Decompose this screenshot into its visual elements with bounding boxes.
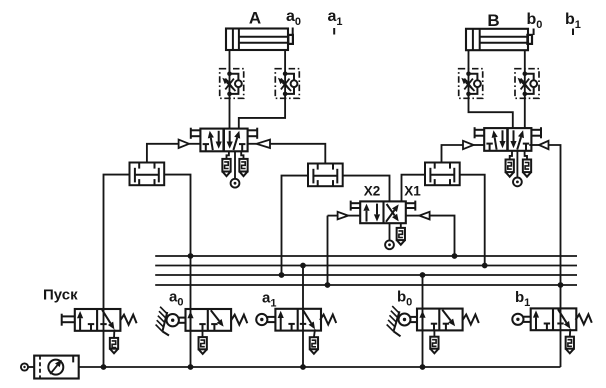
wire: shuttle V1 left input down through start valve to supply rail	[104, 175, 130, 367]
wire: valve B right pilot down to bus line 4 and b1 valve	[529, 145, 560, 367]
shuttle valve V2 (OR, valve A pilot return)	[308, 164, 343, 187]
junction: a1 valve on supply rail	[300, 364, 306, 370]
cylinder A	[226, 29, 293, 51]
3/2 start valve (push button)	[75, 309, 121, 331]
spring return of start valve	[120, 315, 136, 325]
wire: shuttle V3 output to valve B left pilot	[442, 145, 485, 163]
junction: a0 valve on supply rail	[188, 364, 194, 370]
spring return b0	[463, 315, 479, 325]
label X2	[364, 184, 381, 199]
wire: shuttle V3 right input down to bus line 2	[460, 175, 485, 266]
3/2 limit valve b1	[531, 308, 577, 330]
wire: a1 valve output up to bus line 2 and down to supply rail	[302, 266, 304, 368]
wall mark a0	[156, 307, 169, 336]
silencer under b1 valve	[566, 329, 574, 354]
label X1	[404, 184, 421, 199]
junction: start valve on supply rail	[101, 364, 107, 370]
flow control valve DR2 (A head side)	[275, 69, 299, 99]
junction: b0 valve on supply rail	[420, 364, 426, 370]
flow control valve DR1 (A rod side)	[220, 69, 244, 99]
svg-text:X1: X1	[404, 184, 421, 199]
wire: cylinder A left port down through flow control to valve A top	[229, 50, 231, 129]
svg-text:A: A	[249, 9, 261, 28]
wire: shuttle V1 output to valve A left pilot	[147, 144, 201, 163]
label b0 (limit valve)	[397, 289, 412, 309]
junction: V3 input on bus 2	[482, 263, 488, 269]
label a1 with position mark	[328, 8, 343, 35]
3/2 limit valve a0 (shown actuated)	[186, 309, 232, 331]
wire: cylinder B right port down through flow control to valve B top	[524, 50, 526, 128]
silencer under b0 valve	[430, 330, 438, 353]
wall mark b0	[387, 306, 401, 336]
shuttle valve V1 (OR, valve A pilot)	[130, 163, 165, 186]
label b1 with position mark	[565, 11, 581, 35]
5/2 directional valve P2 (cylinder B)	[475, 127, 541, 151]
pilot triangle P2 right	[539, 141, 549, 149]
silencer under a0 valve	[199, 331, 207, 354]
roller actuator a0	[167, 314, 186, 326]
wire: shuttle V3 left input to valve X1 output port	[402, 175, 426, 202]
junction: a1 line on bus 2	[300, 263, 306, 269]
wire: cylinder B left port down through flow control, bend to valve B top	[469, 50, 513, 128]
pilot triangle P1 left	[179, 140, 190, 148]
spring return a1	[320, 315, 336, 325]
wire: shuttle V2 left input down to bus line 3	[282, 176, 309, 275]
junction: V2 input on bus 3	[279, 272, 285, 278]
label a1 (limit valve)	[262, 290, 276, 310]
wire: shuttle V1 right input down through a0 valve to supply rail	[164, 175, 190, 367]
silencer under P1 left exhaust	[222, 151, 230, 176]
junction: X left pilot on bus 4	[325, 282, 331, 288]
label A	[249, 9, 261, 28]
label B	[487, 11, 499, 30]
silencer under P1 right exhaust	[239, 151, 247, 176]
pilot triangle P1 right	[256, 140, 270, 148]
pilot triangle P2 left	[463, 141, 474, 149]
junction: X right pilot on bus 1	[452, 253, 458, 259]
spring return b1	[576, 314, 592, 324]
wire: bus line 1	[155, 255, 577, 257]
silencer under a1 valve	[310, 329, 318, 354]
svg-text:X2: X2	[364, 184, 381, 199]
wire: supply rail	[79, 366, 561, 368]
wire: cylinder A right port down through flow control, bend to valve A top	[239, 50, 285, 129]
air supply source (circle with dot)	[21, 363, 34, 370]
wire: bus line 4	[155, 284, 577, 286]
wire: bus line 3	[155, 274, 577, 276]
wire: b0 valve line from bus line 3 down to supply rail	[422, 275, 424, 367]
silencer under P2 right exhaust	[523, 151, 531, 177]
spring return a0	[231, 315, 247, 325]
pressure source under X	[385, 223, 394, 249]
label Pusk (start)	[43, 287, 78, 304]
label b1 (limit valve)	[515, 289, 530, 309]
label a0 (limit valve)	[169, 289, 183, 309]
wire: valve X left pilot down to bus line 4	[328, 216, 361, 285]
junction: b0 line on bus 3	[420, 272, 426, 278]
pressure source under P1	[231, 151, 240, 187]
pilot triangle X right	[419, 212, 429, 220]
junction: a0 line on bus 1	[188, 253, 194, 259]
roller actuator a1	[256, 314, 275, 325]
conditioning unit (filter-regulator with gauge)	[34, 356, 78, 379]
3/2 limit valve b0 (shown actuated)	[417, 309, 463, 331]
flow control valve DR4 (B head side)	[515, 69, 539, 99]
roller actuator b1	[512, 314, 530, 325]
silencer under X	[397, 223, 405, 245]
pilot triangle X left	[338, 212, 349, 220]
4/2 impulse valve X (memory)	[351, 201, 416, 224]
push button actuator	[62, 314, 75, 326]
silencer under P2 left exhaust	[506, 151, 514, 177]
wire: valve A right pilot to shuttle V2 output	[248, 144, 326, 164]
shuttle valve V3 (OR, valve B pilot)	[425, 163, 460, 186]
wire: shuttle V2 right input down to valve X2 output port	[343, 176, 390, 202]
roller actuator b0	[399, 314, 418, 326]
label a0 with position mark	[286, 8, 301, 34]
pressure source under P2	[513, 151, 522, 187]
wire: bus line 2	[155, 265, 577, 267]
svg-text:Пуск: Пуск	[43, 287, 78, 304]
silencer under start valve	[110, 329, 118, 353]
cylinder B	[466, 29, 532, 50]
5/2 directional valve P1 (cylinder A)	[191, 128, 257, 152]
flow control valve DR3 (B rod side)	[459, 69, 483, 99]
3/2 limit valve a1	[275, 309, 321, 331]
svg-text:B: B	[487, 11, 499, 30]
wire: valve X right pilot down to bus line 1	[406, 216, 455, 256]
label b0 with position mark	[527, 11, 543, 35]
junction: b1 line on bus 4	[558, 282, 564, 288]
